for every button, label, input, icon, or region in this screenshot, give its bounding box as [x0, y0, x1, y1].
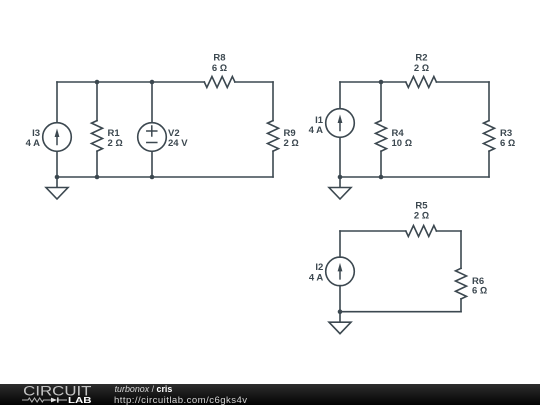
wire — [380, 82, 382, 121]
node V2 top (junction dot) — [150, 80, 155, 85]
label R1 2 ohm — [108, 128, 123, 149]
ground — [329, 177, 351, 199]
svg-text:4 A: 4 A — [309, 125, 324, 136]
svg-text:6 Ω: 6 Ω — [472, 286, 487, 297]
wire — [96, 82, 98, 121]
wire — [56, 151, 58, 177]
label R2 2 ohm — [414, 53, 429, 74]
node R1 bottom (junction dot) — [95, 175, 100, 180]
wire — [56, 82, 58, 123]
label R9 2 ohm — [284, 128, 299, 149]
node ground B (junction dot) — [338, 175, 343, 180]
svg-text:2 Ω: 2 Ω — [284, 138, 299, 149]
label R5 2 ohm — [414, 201, 429, 222]
wire — [488, 151, 490, 177]
voltage source V2 — [138, 123, 167, 152]
svg-text:2 Ω: 2 Ω — [414, 211, 429, 222]
wire — [488, 82, 490, 121]
label R8 6 ohm — [212, 53, 227, 74]
resistor R3 — [484, 121, 495, 152]
resistor R4 — [376, 121, 387, 152]
current source I3 — [43, 123, 72, 152]
resistor R8 — [204, 77, 235, 88]
label I1 4 A — [309, 115, 324, 136]
label I2 4 A — [309, 262, 324, 283]
wire — [380, 151, 382, 177]
wire — [436, 81, 489, 83]
wire — [151, 151, 153, 177]
wire — [460, 299, 462, 312]
label R4 10 ohm — [392, 128, 413, 149]
ground — [46, 177, 68, 199]
resistor R5 — [406, 226, 437, 237]
resistor R1 — [92, 121, 103, 152]
wire — [272, 151, 274, 177]
svg-text:http://circuitlab.com/c6gks4v: http://circuitlab.com/c6gks4v — [114, 395, 248, 405]
label V2 24 V — [168, 128, 188, 149]
wire — [339, 231, 341, 257]
node R1 top (junction dot) — [95, 80, 100, 85]
svg-text:2 Ω: 2 Ω — [414, 63, 429, 74]
wire — [436, 230, 461, 232]
logo diode — [51, 397, 67, 402]
wire — [57, 81, 204, 83]
svg-text:6 Ω: 6 Ω — [212, 63, 227, 74]
resistor R9 — [268, 121, 279, 152]
svg-text:6 Ω: 6 Ω — [500, 138, 515, 149]
current source I1 — [326, 109, 355, 138]
svg-text:4 A: 4 A — [309, 272, 324, 283]
ground — [329, 312, 351, 334]
node R4 bottom (junction dot) — [379, 175, 384, 180]
label R3 6 ohm — [500, 128, 515, 149]
svg-text:2 Ω: 2 Ω — [108, 138, 123, 149]
footer bar — [0, 384, 540, 405]
wire — [339, 137, 341, 177]
label I3 4 A — [26, 128, 41, 149]
wire — [339, 82, 341, 109]
svg-text:10 Ω: 10 Ω — [392, 138, 413, 149]
current source I2 — [326, 257, 355, 286]
svg-text:4 A: 4 A — [26, 138, 41, 149]
wire — [151, 82, 153, 123]
wire — [272, 82, 274, 121]
svg-text:turbonox / cris: turbonox / cris — [115, 384, 173, 394]
label R6 6 ohm — [472, 276, 487, 297]
node ground C (junction dot) — [338, 309, 343, 314]
resistor R6 — [456, 268, 467, 299]
wire — [340, 230, 406, 232]
node V2 bottom (junction dot) — [150, 175, 155, 180]
wire — [235, 81, 273, 83]
node R4 top (junction dot) — [379, 80, 384, 85]
svg-text:24 V: 24 V — [168, 138, 188, 149]
wire — [96, 151, 98, 177]
resistor R2 — [406, 77, 437, 88]
wire — [57, 176, 273, 178]
logo resistor zigzag — [22, 398, 51, 402]
node ground A (junction dot) — [55, 175, 60, 180]
wire — [339, 286, 341, 312]
svg-text:LAB: LAB — [68, 395, 92, 405]
wire — [340, 176, 489, 178]
wire — [340, 81, 406, 83]
wire — [340, 311, 461, 313]
wire — [460, 231, 462, 268]
